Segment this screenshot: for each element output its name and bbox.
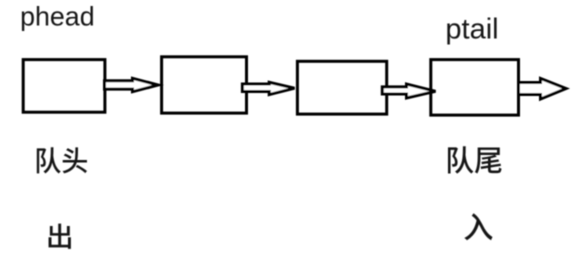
svg-text:phead: phead — [20, 2, 95, 32]
svg-text:ptail: ptail — [445, 14, 498, 46]
